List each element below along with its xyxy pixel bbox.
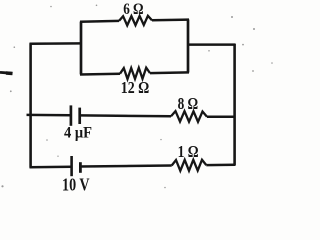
resistor R4 1-ohm [172, 160, 207, 171]
capacitor C1 4uF right plate [78, 108, 81, 124]
wire top-right [187, 43, 236, 46]
wire top-left [30, 42, 82, 45]
svg-text:1 Ω: 1 Ω [178, 142, 199, 161]
battery V1 short plate [79, 162, 82, 173]
svg-text:6 Ω: 6 Ω [123, 1, 144, 18]
resistor R1 6-ohm [119, 16, 152, 26]
svg-text:12 Ω: 12 Ω [121, 78, 150, 97]
wire box bottom edge right [150, 71, 189, 74]
wire box bottom edge left [80, 72, 120, 75]
wire bottom far right [206, 164, 235, 167]
wire box top edge left [80, 20, 119, 23]
wire middle right [80, 114, 171, 117]
wire bottom right [80, 166, 171, 167]
svg-text:10 V: 10 V [62, 175, 90, 195]
resistor R2 12-ohm [120, 68, 150, 79]
svg-text:8 Ω: 8 Ω [178, 94, 199, 113]
wire middle left [27, 114, 72, 117]
resistor R3 8-ohm [171, 111, 207, 122]
svg-text:4 μF: 4 μF [64, 125, 92, 142]
wire bottom left [30, 165, 72, 168]
wire right rail [233, 44, 236, 166]
capacitor C1 4uF left plate [70, 105, 73, 125]
node parallel-box right edge [187, 20, 190, 73]
wire box top edge right [152, 18, 189, 21]
node parallel-box left edge [80, 22, 83, 75]
wire left rail [29, 43, 32, 167]
scan noise specks [1, 5, 272, 189]
battery V1 long plate [70, 156, 73, 176]
wire left stub [0, 71, 13, 75]
wire middle far right [207, 115, 235, 118]
